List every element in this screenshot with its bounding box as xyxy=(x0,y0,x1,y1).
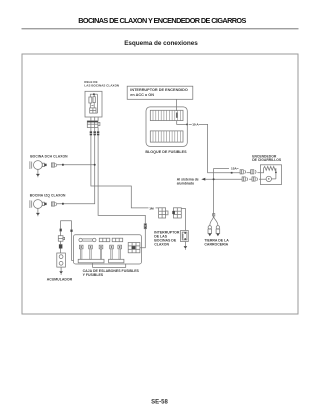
svg-text:BOCINAS DE CLAXON Y ENCENDEDOR: BOCINAS DE CLAXON Y ENCENDEDOR DE CIGARR… xyxy=(78,16,246,25)
svg-text:DE CIGARRILLOS: DE CIGARRILLOS xyxy=(252,158,282,162)
svg-text:CLAXON: CLAXON xyxy=(154,242,169,246)
svg-text:BOCINA DCH CLAXON: BOCINA DCH CLAXON xyxy=(30,155,68,159)
svg-text:CARROCERIA: CARROCERIA xyxy=(204,242,228,246)
svg-text:Y FUSIBLES: Y FUSIBLES xyxy=(83,273,104,277)
svg-text:Esquema de conexiones: Esquema de conexiones xyxy=(124,40,198,47)
svg-text:ACUMULADOR: ACUMULADOR xyxy=(47,277,73,281)
svg-text:en ACC o ON: en ACC o ON xyxy=(130,93,154,97)
svg-text:INTERRUPTOR DE ENCENDIDO: INTERRUPTOR DE ENCENDIDO xyxy=(130,88,188,92)
svg-text:LAS BOCINAS CLAXON: LAS BOCINAS CLAXON xyxy=(84,84,119,88)
svg-text:alumbrado: alumbrado xyxy=(177,181,194,185)
svg-text:BOCINA IZQ CLAXON: BOCINA IZQ CLAXON xyxy=(30,194,66,198)
svg-text:15A: 15A xyxy=(231,166,237,170)
svg-text:10 A: 10 A xyxy=(192,123,199,127)
svg-text:1M: 1M xyxy=(149,206,154,210)
svg-text:BLOQUE DE FUSIBLES: BLOQUE DE FUSIBLES xyxy=(145,150,187,154)
svg-text:SE-58: SE-58 xyxy=(151,400,168,406)
